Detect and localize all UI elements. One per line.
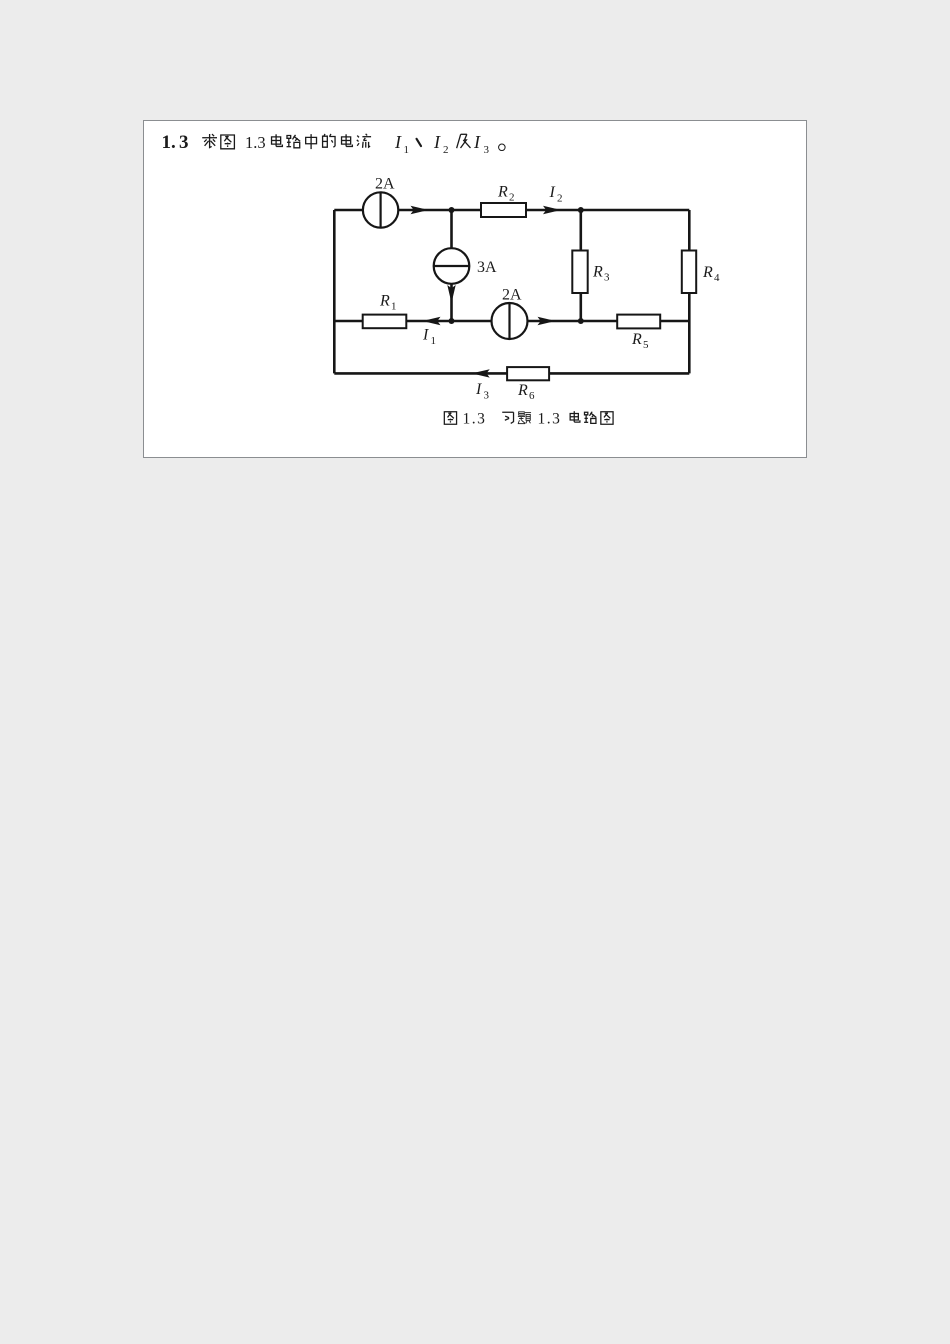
wire: top rail left segment <box>334 209 363 212</box>
wire: middle rail seg4 <box>660 320 689 323</box>
title hanzi: dian2 <box>342 134 353 146</box>
title hanzi: liu <box>357 134 371 148</box>
svg-text:I: I <box>475 381 482 398</box>
wire: top rail right segment <box>526 209 689 212</box>
label I2 <box>549 184 563 205</box>
label I1 <box>422 327 436 348</box>
title hanzi: qiu <box>202 134 217 148</box>
svg-text:R: R <box>702 264 713 281</box>
svg-text:I: I <box>422 327 429 344</box>
caption hanzi: dian <box>570 411 580 422</box>
svg-text:5: 5 <box>643 339 649 351</box>
arrow right after middle 2A source <box>538 317 556 325</box>
title juhao <box>499 144 506 151</box>
svg-text:2: 2 <box>443 144 449 156</box>
svg-text:1: 1 <box>391 301 397 313</box>
svg-text:1.3: 1.3 <box>245 133 266 152</box>
label R1 <box>379 293 397 313</box>
arrow right after R2 <box>543 206 561 214</box>
title dunhao <box>417 139 421 146</box>
svg-text:2: 2 <box>557 193 563 205</box>
wire: right vertical below R4 <box>688 293 691 373</box>
svg-text:2: 2 <box>509 192 515 204</box>
svg-text:I: I <box>433 132 441 152</box>
wire: 3A branch lower <box>450 284 453 321</box>
title hanzi: zhong <box>306 134 317 149</box>
caption hanzi: tu <box>444 412 456 424</box>
resistor R5 <box>617 315 660 329</box>
wire: right vertical above R4 <box>688 210 691 251</box>
title hanzi: dian <box>272 134 283 146</box>
current source 2A (middle rail) <box>492 303 528 339</box>
resistor R2 <box>481 203 526 217</box>
wire: top rail middle segment <box>398 209 481 212</box>
label R3 <box>592 264 610 284</box>
caption hanzi: ti <box>518 412 531 424</box>
svg-text:3: 3 <box>484 390 490 402</box>
svg-text:1.3: 1.3 <box>538 411 562 428</box>
current source 3A (middle branch) <box>434 248 470 284</box>
svg-text:R: R <box>592 264 603 281</box>
current source 2A (top) <box>363 192 398 227</box>
wire: middle rail seg2 <box>406 320 491 323</box>
svg-text:I: I <box>394 132 402 152</box>
wire: R3 branch lower <box>579 293 582 321</box>
arrow down below 3A source <box>447 285 455 303</box>
label R5 <box>631 331 649 351</box>
svg-text:3: 3 <box>604 272 610 284</box>
svg-text:1: 1 <box>404 144 410 156</box>
wire: bottom rail left segment <box>334 372 507 375</box>
resistor R6 <box>507 367 549 380</box>
title hanzi: tu <box>221 135 235 149</box>
label R4 <box>702 264 720 284</box>
wire: bottom rail right segment <box>549 372 689 375</box>
svg-text:2A: 2A <box>502 287 522 304</box>
svg-text:3: 3 <box>179 132 189 153</box>
label R6 <box>517 382 535 402</box>
caption hanzi: tu2 <box>601 412 613 424</box>
svg-text:R: R <box>497 184 508 201</box>
svg-text:4: 4 <box>714 272 720 284</box>
arrow left on middle rail (I1) <box>423 317 441 325</box>
resistor R4 <box>682 251 696 294</box>
wire: left vertical <box>333 210 336 373</box>
arrow left on bottom rail (I3) <box>472 369 490 377</box>
resistor R1 <box>363 315 407 329</box>
node: top junction at R3 branch <box>578 207 584 213</box>
svg-text:R: R <box>379 293 390 310</box>
wire: middle rail seg1 <box>334 320 362 323</box>
resistor R3 <box>572 251 587 294</box>
svg-text:I: I <box>473 132 481 152</box>
label R2 <box>497 184 515 204</box>
node: middle junction at 3A branch <box>449 318 455 324</box>
svg-text:1.3: 1.3 <box>463 411 487 428</box>
svg-text:I: I <box>549 184 556 201</box>
svg-text:1.: 1. <box>162 132 176 153</box>
svg-text:3: 3 <box>484 144 490 156</box>
svg-text:R: R <box>631 331 642 348</box>
svg-text:3A: 3A <box>477 259 497 276</box>
svg-text:2A: 2A <box>375 176 395 193</box>
svg-text:1: 1 <box>431 335 437 347</box>
title hanzi: lu <box>287 135 301 148</box>
label I3 <box>475 381 490 402</box>
wire: 3A branch upper <box>450 210 453 248</box>
white content panel <box>143 120 807 458</box>
wire: R3 branch upper <box>579 210 582 251</box>
title hanzi: ji <box>457 134 471 148</box>
caption hanzi: lu <box>584 412 596 424</box>
title hanzi: de <box>323 134 335 147</box>
caption hanzi: xi <box>502 412 513 423</box>
wire: middle rail seg3 <box>528 320 618 323</box>
arrow right after 2A top source <box>411 206 429 214</box>
node: middle junction at R3 branch <box>578 318 584 324</box>
svg-text:R: R <box>517 382 528 399</box>
node: top junction at 3A branch <box>449 207 455 213</box>
svg-text:6: 6 <box>529 390 535 402</box>
